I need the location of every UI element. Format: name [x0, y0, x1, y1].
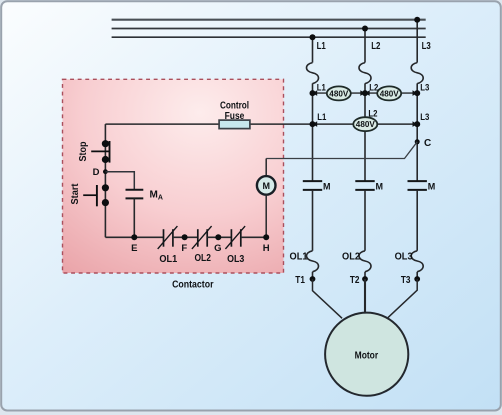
wire T3 stub — [416, 272, 418, 281]
svg-text:OL1: OL1 — [290, 251, 308, 262]
overload heater OL1 squiggle — [307, 251, 319, 272]
arrowhead row1 at L2 from right — [365, 90, 370, 96]
wire L2 drop lower — [364, 190, 366, 251]
bus line 2 (middle phase) — [112, 28, 426, 30]
overload heater OL2 squiggle — [359, 251, 371, 272]
pushbutton Start (NO) — [83, 184, 109, 206]
wire OL2 to OL3 — [207, 236, 231, 238]
fuse F1 squiggle on L1 drop — [307, 63, 319, 84]
bus line 3 (bottom phase) — [112, 36, 426, 38]
contact M1 bars on L1 — [303, 181, 322, 190]
svg-text:OL2: OL2 — [342, 251, 360, 262]
wire L2 drop upper — [364, 29, 366, 63]
pushbutton Stop (NC) — [91, 140, 109, 163]
wire MA to E — [133, 198, 135, 237]
svg-text:M: M — [262, 181, 270, 191]
svg-text:Fuse: Fuse — [225, 111, 245, 122]
svg-text:L3: L3 — [420, 112, 429, 123]
contact OL3 (NC) — [225, 226, 245, 249]
overload heater OL3 squiggle — [411, 251, 423, 272]
svg-text:OL3: OL3 — [227, 254, 245, 265]
wire L1 drop middle — [312, 83, 314, 181]
voltmeter V2 480V — [377, 86, 401, 100]
control fuse body — [219, 120, 250, 129]
wire OL1 to OL2 — [173, 236, 198, 238]
control fuse wire / voltmeter row 2 wire — [105, 123, 417, 125]
wire T2 stub — [364, 272, 366, 281]
svg-text:D: D — [93, 167, 100, 178]
node T1 — [310, 276, 316, 282]
node L3 row1 — [414, 90, 420, 96]
node L2 on bus — [362, 26, 368, 32]
svg-text:T1: T1 — [295, 275, 305, 286]
contact MA holding bars — [126, 190, 144, 199]
wire motor lead T3 — [388, 279, 417, 318]
svg-text:M: M — [376, 181, 384, 191]
node C — [415, 139, 420, 144]
svg-text:Stop: Stop — [78, 142, 89, 162]
bus line 1 (top phase) — [112, 19, 426, 21]
wire L3 drop middle — [416, 83, 418, 181]
node E — [131, 234, 137, 240]
node D — [103, 169, 108, 174]
svg-text:L3: L3 — [422, 41, 432, 52]
fuse F3 squiggle on L3 drop — [411, 63, 423, 84]
wire bottom run E to OL1 contact — [105, 236, 163, 238]
wire D branch to MA — [105, 172, 134, 190]
svg-text:Start: Start — [70, 183, 81, 205]
arrowhead row2 at L3 — [413, 121, 418, 127]
svg-text:L3: L3 — [420, 82, 429, 93]
svg-text:F: F — [181, 243, 187, 254]
svg-text:L1: L1 — [317, 82, 327, 93]
svg-text:L2: L2 — [371, 41, 381, 52]
wire C diagonal to coil feed — [266, 142, 417, 159]
wire L1 drop upper — [312, 37, 314, 62]
contactor enclosure box — [63, 79, 284, 273]
wire L2 drop middle — [364, 83, 366, 181]
node L2 row1 — [362, 90, 368, 96]
svg-text:L1: L1 — [317, 41, 327, 52]
motor M — [325, 313, 408, 396]
contact OL1 (NC) — [158, 226, 178, 249]
node L1 row1 — [310, 90, 316, 96]
svg-text:H: H — [263, 243, 270, 254]
svg-text:OL3: OL3 — [395, 251, 413, 262]
wire OL3 to H — [241, 236, 266, 238]
arrowhead row2 at L1 — [313, 121, 318, 127]
arrowhead row1 at L1 — [313, 90, 318, 96]
svg-text:Motor: Motor — [355, 350, 379, 362]
voltmeter V1 480V — [327, 86, 351, 100]
svg-text:L1: L1 — [317, 112, 327, 123]
coil M (contactor coil) — [257, 176, 276, 195]
fuse F2 squiggle on L2 drop — [359, 63, 371, 84]
node L1 row2 — [310, 121, 316, 127]
svg-text:M: M — [323, 181, 331, 191]
voltmeter V3 480V — [353, 117, 377, 131]
svg-text:E: E — [131, 243, 137, 254]
node T3 — [414, 276, 420, 282]
svg-text:G: G — [214, 243, 221, 254]
svg-text:480V: 480V — [380, 88, 399, 98]
svg-text:T2: T2 — [350, 275, 360, 286]
wire control left vertical — [104, 124, 106, 237]
node L1 on bus — [310, 34, 316, 40]
wire motor lead T1 — [313, 279, 343, 318]
wire L3 drop upper — [416, 20, 418, 63]
svg-text:Contactor: Contactor — [172, 279, 214, 290]
node H — [263, 234, 269, 240]
node F — [182, 234, 188, 240]
svg-text:T3: T3 — [401, 275, 411, 286]
svg-text:C: C — [424, 138, 431, 149]
arrowhead row1 at L2 from left — [360, 90, 365, 96]
svg-text:480V: 480V — [329, 88, 348, 98]
node G — [215, 234, 221, 240]
wire coil bottom lead to H — [265, 194, 267, 237]
wire L1 drop lower — [312, 190, 314, 251]
wire coil top lead — [265, 159, 267, 177]
svg-text:M: M — [428, 181, 436, 191]
wire L3 drop lower — [416, 190, 418, 251]
svg-text:Control: Control — [220, 100, 249, 111]
node L3 row2 — [414, 121, 420, 127]
contact M2 bars on L2 — [355, 181, 374, 190]
wire T1 stub — [312, 272, 314, 281]
node L3 on bus — [414, 17, 420, 23]
wire motor lead T2 — [364, 279, 366, 314]
voltmeter row 1 wire — [313, 92, 418, 94]
contact M3 bars on L3 — [408, 181, 427, 190]
arrowhead row1 at L3 — [413, 90, 418, 96]
svg-text:480V: 480V — [356, 119, 375, 129]
contact OL2 (NC) — [192, 226, 212, 249]
node T2 — [362, 276, 368, 282]
svg-text:OL2: OL2 — [195, 253, 212, 264]
svg-text:OL1: OL1 — [159, 254, 177, 265]
